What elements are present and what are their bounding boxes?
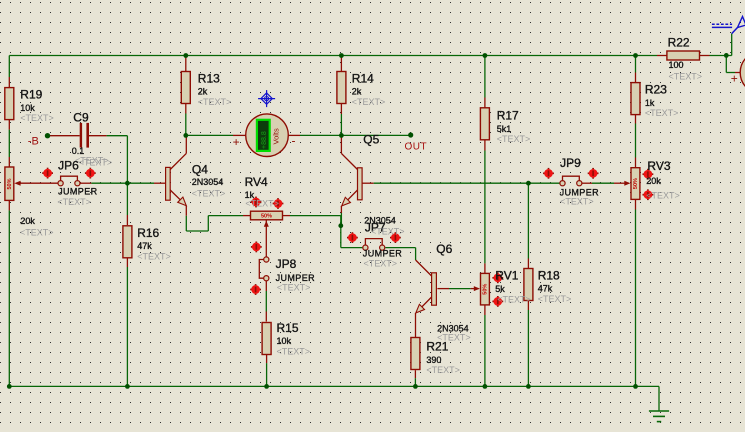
svg-text:47k: 47k — [137, 241, 152, 251]
wire R23 bottom lead — [635, 113, 637, 123]
svg-text:10k: 10k — [20, 103, 35, 113]
svg-text:50%: 50% — [482, 284, 488, 295]
junction R14 out — [339, 133, 344, 138]
junction bottom RV3 — [633, 384, 638, 389]
svg-text:JP9: JP9 — [560, 156, 581, 170]
potentiometer RV4 — [245, 175, 283, 227]
svg-text:R15: R15 — [277, 321, 299, 335]
wire R14 bottom lead — [340, 104, 342, 114]
wire R15 to bottom rail — [266, 363, 268, 386]
pin marker RV1 top — [492, 272, 503, 283]
wire RV1 bottom lead — [484, 305, 486, 315]
wire R15 bottom lead — [266, 355, 268, 363]
wire R17 bottom lead — [484, 140, 486, 150]
svg-text:+: + — [233, 135, 240, 149]
svg-text:2k: 2k — [352, 87, 362, 97]
pin marker RV4 right — [273, 198, 284, 209]
wire R18 top lead — [527, 259, 529, 269]
junction bottom RV1 — [483, 384, 488, 389]
svg-text:R16: R16 — [137, 226, 159, 240]
transistor Q4 — [166, 163, 226, 206]
wire RV2 wiper to JP6 — [16, 182, 58, 184]
wire R15 top lead — [265, 312, 267, 322]
node B terminal — [28, 133, 50, 148]
wire C9 to mid junction — [107, 136, 128, 184]
pin marker RV3 bottom — [643, 189, 654, 200]
junction top R23 — [633, 53, 638, 58]
wire Q5 emitter to junction B — [340, 213, 342, 226]
wire R14 top lead — [340, 57, 342, 72]
wire left rail upper — [8, 56, 10, 78]
wire meter minus lead — [289, 134, 300, 136]
resistor R15 — [262, 321, 310, 357]
jumper JP7 labels — [363, 215, 405, 268]
wire Q5 base to junction C — [374, 182, 529, 184]
svg-text:R14: R14 — [352, 71, 374, 85]
resistor R14 — [337, 71, 385, 107]
wire bottom ground rail — [9, 386, 659, 411]
svg-text:<TEXT>: <TEXT> — [426, 365, 460, 375]
junction top R13 — [183, 53, 188, 58]
wire R22 right lead — [700, 55, 710, 57]
svg-text:<TEXT>: <TEXT> — [560, 197, 594, 207]
svg-text:<TEXT>: <TEXT> — [192, 189, 226, 199]
svg-text:50%: 50% — [633, 178, 639, 189]
svg-text:5k1: 5k1 — [497, 124, 512, 134]
pin marker JP7 right — [390, 232, 401, 243]
pin marker JP8 top — [251, 242, 262, 253]
wire Q5 collector — [341, 135, 357, 169]
wire meter plus lead — [233, 134, 245, 136]
wire R13 to node — [185, 114, 187, 136]
svg-text:<TEXT>: <TEXT> — [646, 191, 680, 201]
wire R13 bottom lead — [185, 103, 187, 113]
wire B terminal to C9 — [48, 135, 80, 137]
wire R22 to top-right junction — [710, 34, 732, 56]
resistor R17 — [480, 108, 530, 144]
resistor R19 — [5, 88, 54, 124]
svg-text:Volts: Volts — [272, 128, 281, 145]
wire Q4 emitter lead — [185, 206, 187, 216]
pin marker RV3 top — [643, 169, 654, 180]
svg-text:JUMPER: JUMPER — [58, 187, 98, 197]
svg-text:<TEXT>: <TEXT> — [20, 227, 54, 237]
wire junction A down to R16 — [126, 183, 128, 215]
junction bottom R15 — [264, 384, 269, 389]
svg-text:20k: 20k — [646, 176, 661, 186]
wire R18 to bottom rail — [527, 310, 529, 386]
svg-text:<TEXT>: <TEXT> — [364, 259, 398, 269]
svg-text:50%: 50% — [261, 213, 272, 219]
junction A mid-left — [125, 181, 130, 186]
jumper JP6 — [58, 176, 80, 186]
wire Q5 emitter lead — [340, 206, 342, 213]
svg-text:Q6: Q6 — [436, 242, 452, 256]
svg-text:Q5: Q5 — [363, 133, 379, 147]
junction top R17 — [483, 53, 488, 58]
wire node to meter plus — [188, 134, 233, 136]
wire RV4 to junction B — [290, 216, 341, 226]
pin marker JP9 right — [588, 168, 599, 179]
svg-text:JP6: JP6 — [58, 159, 79, 173]
svg-text:+: + — [731, 71, 738, 85]
wire Q5 base lead — [362, 182, 374, 184]
wire R23 top lead — [635, 73, 637, 83]
resistor R21 — [411, 338, 460, 376]
wire RV1 wiper lead — [471, 288, 479, 290]
resistor R13 — [181, 71, 231, 107]
svg-text:JUMPER: JUMPER — [363, 249, 403, 259]
wire RV4 wiper to JP8 — [265, 220, 267, 257]
wire RV4 left lead — [243, 215, 251, 217]
wire JP6 to junction A — [91, 182, 127, 184]
wire JP8 bottom stub — [265, 281, 267, 291]
svg-text:+88.8: +88.8 — [261, 131, 268, 149]
wire junction C to R18 — [527, 183, 529, 258]
svg-text:-B: -B — [28, 136, 39, 148]
jumper JP6 labels — [57, 159, 97, 207]
wire JP8 to R15 — [265, 291, 267, 312]
svg-text:20k: 20k — [20, 216, 35, 226]
transistor Q5 — [342, 133, 380, 206]
svg-text:R13: R13 — [198, 71, 220, 85]
voltmeter meter1 — [233, 114, 296, 157]
svg-text:R18: R18 — [538, 268, 560, 282]
svg-text:RV3: RV3 — [647, 159, 670, 173]
voltmeter meter2 — [731, 51, 745, 94]
junction bottom R18 — [526, 384, 531, 389]
junction B emitter — [338, 223, 343, 228]
svg-text:<TEXT>: <TEXT> — [352, 97, 386, 107]
svg-text:47k: 47k — [538, 284, 553, 294]
wire RV3 top lead — [635, 158, 637, 168]
wire Q4 collector — [170, 135, 186, 169]
junction bottom R16 — [125, 384, 130, 389]
wire RV4 right lead — [283, 215, 291, 217]
wire junction to meter2 plus — [726, 56, 735, 73]
capacitor C9 — [72, 111, 109, 166]
resistor R23 — [631, 83, 678, 119]
wire JP9 to RV3 — [592, 182, 614, 184]
pin marker RV1 bottom — [492, 296, 503, 307]
svg-text:2N3054: 2N3054 — [192, 177, 224, 187]
svg-text:<TEXT>: <TEXT> — [277, 346, 311, 356]
wire Q4 base lead — [154, 182, 166, 184]
wire Q4 emitter to RV4 — [186, 216, 243, 231]
wire RV1 to bottom rail — [484, 315, 486, 386]
junction C mid-right — [526, 181, 531, 186]
svg-text:<TEXT>: <TEXT> — [198, 97, 232, 107]
svg-text:JP8: JP8 — [276, 257, 297, 271]
svg-text:-: - — [292, 134, 296, 148]
wire RV2 bottom lead — [8, 200, 10, 210]
wire R18 bottom lead — [527, 300, 529, 310]
svg-text:5k: 5k — [495, 284, 505, 294]
junction top right — [724, 53, 729, 58]
wire R23 top — [635, 56, 637, 73]
svg-text:<TEXT>: <TEXT> — [137, 251, 171, 261]
svg-text:<TEXT>: <TEXT> — [57, 197, 91, 207]
wire R22 left lead — [657, 55, 667, 57]
wire R19 top lead — [8, 77, 10, 88]
svg-text:<TEXT>: <TEXT> — [538, 294, 572, 304]
svg-text:0.1: 0.1 — [72, 146, 85, 156]
wire RV3 bottom lead — [635, 199, 637, 209]
pin marker JP6 left — [42, 168, 53, 179]
transistor Q6 — [416, 242, 471, 343]
svg-text:RV1: RV1 — [495, 268, 518, 282]
svg-text:2k: 2k — [198, 87, 208, 97]
svg-text:<TEXT>: <TEXT> — [437, 333, 471, 343]
wire meter2 lead — [735, 72, 741, 74]
svg-text:<TEXT>: <TEXT> — [371, 226, 405, 236]
origin crosshair marker — [258, 90, 275, 107]
svg-text:10k: 10k — [277, 336, 292, 346]
svg-text:100: 100 — [669, 60, 684, 70]
potentiometer RV2 body — [5, 157, 112, 237]
junction bottom left — [7, 384, 12, 389]
wire R17 to RV1 — [484, 151, 486, 264]
potentiometer RV3 — [624, 159, 679, 201]
wire RV2 to bottom rail — [8, 210, 10, 386]
pin marker JP8 bottom — [250, 284, 261, 295]
svg-text:<TEXT>: <TEXT> — [245, 199, 279, 209]
wire R17 top — [484, 56, 486, 98]
wire R16 to bottom rail — [126, 267, 128, 386]
svg-text:<TEXT>: <TEXT> — [75, 156, 109, 166]
resistor R18 — [524, 268, 571, 304]
svg-text:<TEXT>: <TEXT> — [497, 134, 531, 144]
wire RV2 top lead — [8, 157, 10, 167]
svg-text:<TEXT>: <TEXT> — [645, 108, 679, 118]
junction R13 meter — [183, 133, 188, 138]
junction bottom R21 — [413, 384, 418, 389]
svg-text:1k: 1k — [645, 98, 655, 108]
wire R19 bottom lead — [8, 120, 10, 130]
junction top R14 — [339, 53, 344, 58]
svg-text:R22: R22 — [668, 36, 690, 50]
wire JP9 right stub — [582, 182, 592, 184]
svg-text:OUT: OUT — [405, 141, 428, 152]
svg-text:RV4: RV4 — [245, 175, 268, 189]
svg-text:<TEXT>: <TEXT> — [277, 283, 311, 293]
wire R19 to RV2 — [8, 130, 10, 157]
pin marker RV4 left — [251, 197, 262, 208]
svg-text:C9: C9 — [73, 111, 89, 125]
ground — [649, 411, 669, 422]
wire junction A to Q4 base — [127, 182, 154, 184]
resistor R22 — [667, 36, 702, 82]
svg-text:<TEXT>: <TEXT> — [20, 113, 54, 123]
jumper JP9 labels — [560, 156, 600, 207]
svg-text:Q4: Q4 — [192, 163, 208, 177]
jumper JP9 — [560, 176, 582, 186]
potentiometer RV1 — [474, 268, 531, 305]
wire top power rail — [9, 55, 657, 57]
svg-text:JUMPER: JUMPER — [276, 273, 316, 283]
pin marker JP6 right — [85, 168, 96, 179]
svg-text:<TEXT>: <TEXT> — [669, 72, 703, 82]
wire junction C to JP9 — [528, 182, 560, 184]
wire meter to OUT — [300, 134, 409, 136]
wire Q6 emitter to R21 — [415, 313, 417, 337]
svg-text:50%: 50% — [7, 178, 13, 189]
wire C9 right lead — [89, 135, 107, 137]
node OUT terminal — [405, 132, 428, 152]
svg-text:390: 390 — [426, 355, 441, 365]
pin marker JP7 left — [347, 232, 358, 243]
resistor R16 — [123, 226, 171, 261]
wire JP6 right stub — [80, 182, 92, 184]
jumper JP8 — [259, 257, 315, 293]
wire R13 top lead — [185, 57, 187, 72]
wire junction B to JP7 — [341, 226, 363, 248]
voltage probe — [712, 17, 745, 34]
wire RV3 wiper lead — [614, 182, 629, 184]
wire R21 to bottom rail — [414, 378, 416, 386]
wire RV3 to bottom rail — [635, 210, 637, 387]
pin marker JP9 left — [543, 168, 554, 179]
jumper JP7 — [363, 239, 385, 251]
svg-text:R23: R23 — [645, 83, 667, 97]
wire Q6 base to RV1 wiper — [449, 288, 471, 290]
svg-text:R17: R17 — [497, 109, 519, 123]
wire JP7 right to Q6 collector — [385, 248, 415, 260]
wire R14 to out node — [340, 114, 342, 135]
svg-text:R19: R19 — [20, 88, 42, 102]
wire RV1 top lead — [484, 263, 486, 273]
wire R21 bottom lead — [414, 370, 416, 378]
wire R16 top lead — [126, 215, 128, 225]
wire R17 top lead — [484, 98, 486, 108]
wire R23 to RV3 — [635, 124, 637, 158]
wire Q6 base lead — [437, 288, 449, 290]
svg-text:<TEXT>: <TEXT> — [497, 295, 531, 305]
wire R16 bottom lead — [126, 257, 128, 267]
wire Q6 collector lead — [416, 260, 432, 276]
